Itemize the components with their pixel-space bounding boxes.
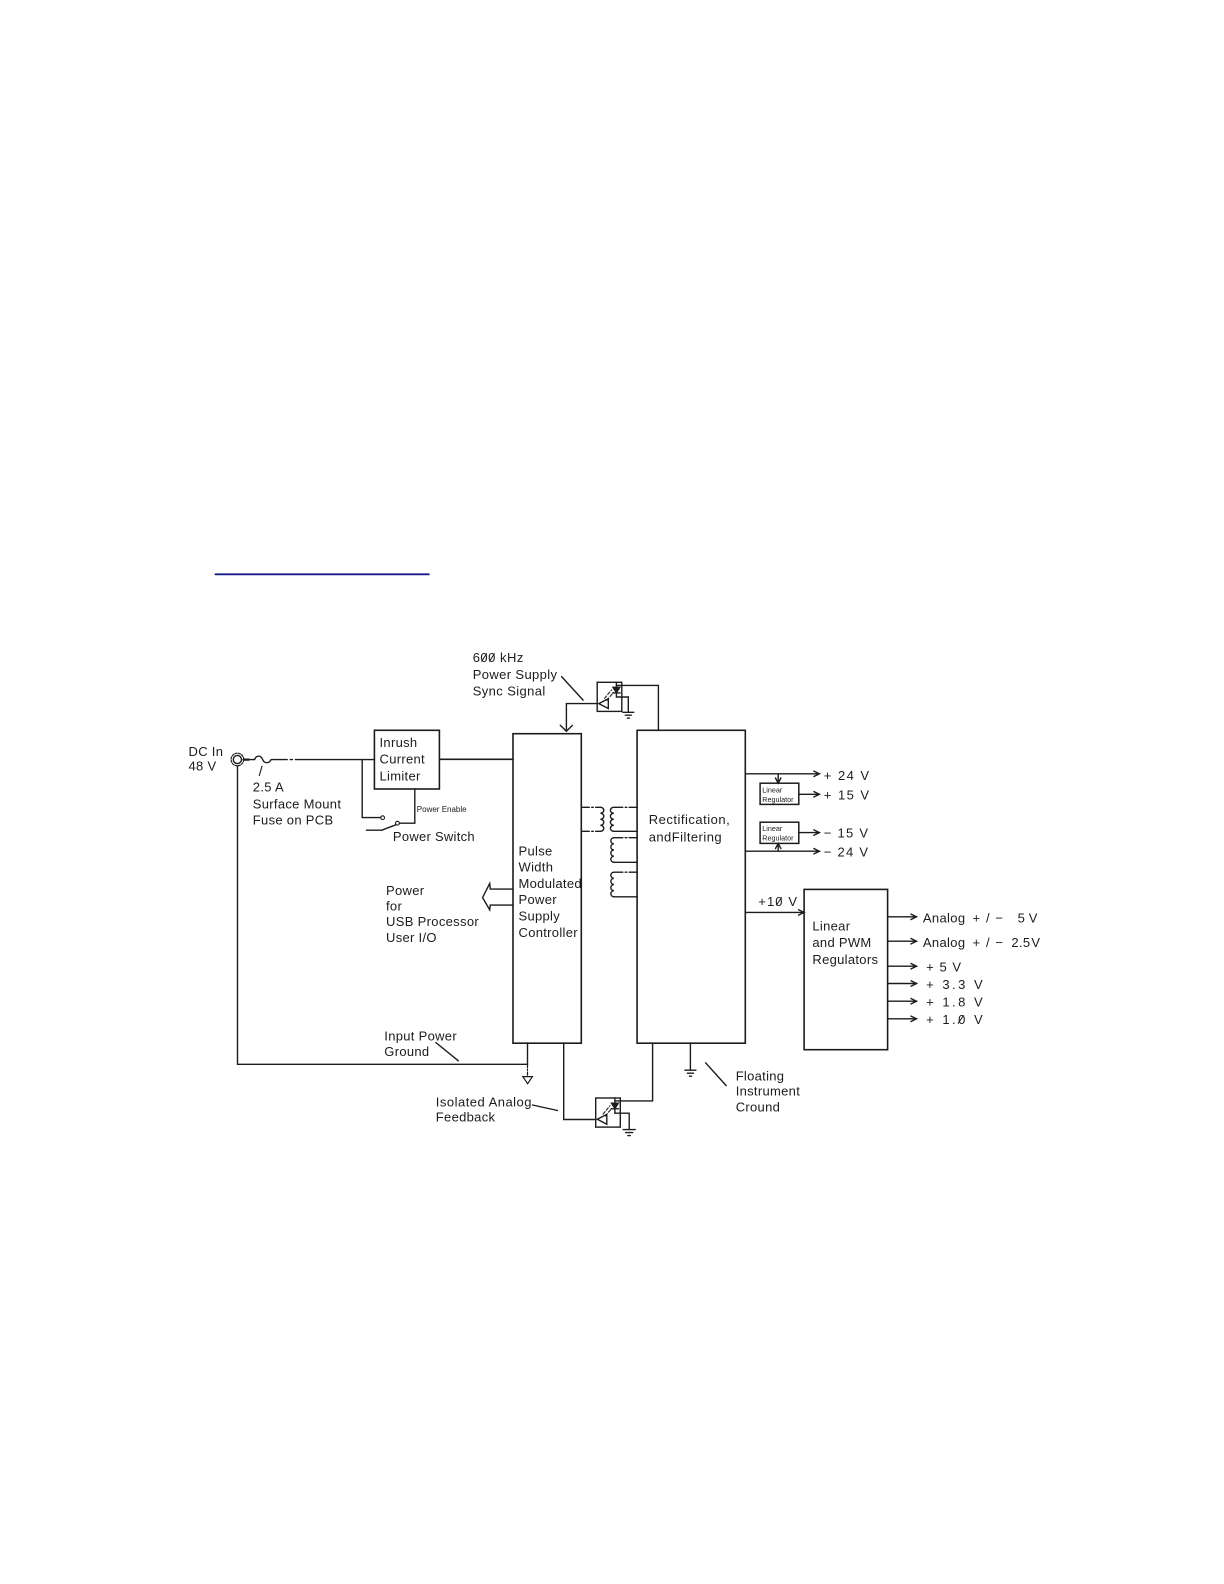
wire: input power ground return loop bbox=[238, 766, 528, 1064]
label: 2.5 A Surface Mount Fuse on PCB bbox=[253, 779, 342, 827]
svg-text:Input Power: Input Power bbox=[384, 1028, 457, 1043]
arrowhead: into regulator 1 bbox=[776, 778, 781, 783]
svg-text:Power Enable: Power Enable bbox=[417, 805, 467, 814]
arrowhead: +10 V bbox=[799, 910, 805, 915]
svg-text:+ 5 V: + 5 V bbox=[926, 959, 961, 974]
wire: -24 V branch into linear regulator 2 bbox=[777, 843, 779, 851]
switch S1: pole contact bbox=[396, 821, 400, 825]
svg-text:+10 V: +10 V bbox=[758, 894, 797, 909]
svg-text:Floating: Floating bbox=[736, 1069, 785, 1084]
transformer T1: secondary winding 3 bbox=[611, 872, 614, 897]
connector J1: DC In bbox=[231, 753, 244, 766]
fuse label leader bbox=[259, 766, 262, 775]
svg-text:V: V bbox=[1031, 935, 1040, 950]
svg-text:+ 15 V: + 15 V bbox=[824, 788, 870, 803]
svg-text:Linear: Linear bbox=[812, 919, 850, 934]
svg-text:Surface Mount: Surface Mount bbox=[253, 797, 342, 812]
wire: -24 V output bbox=[745, 850, 819, 852]
label: Floating Instrument Ground bbox=[736, 1069, 801, 1115]
wire: fuse to inrush limiter (phantom style) bbox=[271, 759, 374, 761]
svg-text:+/−: +/− bbox=[973, 910, 1004, 925]
wire: rectification block to opto U2 bbox=[615, 1043, 653, 1101]
svg-text:Power: Power bbox=[519, 892, 558, 907]
ground (opto U2) bbox=[623, 1130, 635, 1136]
svg-text:Current: Current bbox=[380, 752, 426, 767]
label: Power for USB Processor User I/O bbox=[386, 883, 479, 945]
wire: ground stem bbox=[527, 1064, 529, 1075]
transformer T1: primary winding bbox=[600, 807, 603, 831]
svg-text:Linear: Linear bbox=[762, 824, 783, 833]
wire: input power ground leader bbox=[436, 1043, 459, 1061]
opto-isolator U2 (feedback) bbox=[596, 1098, 621, 1127]
svg-text:Regulator: Regulator bbox=[762, 795, 794, 804]
arrowhead: -15 V bbox=[814, 830, 820, 835]
svg-text:Power Supply: Power Supply bbox=[473, 667, 558, 682]
svg-text:Limiter: Limiter bbox=[380, 769, 421, 784]
fuse F1 bbox=[255, 756, 271, 762]
node: switch branch junction bbox=[361, 760, 363, 818]
switch S1: pole lead bbox=[367, 829, 382, 831]
svg-text:USB Processor: USB Processor bbox=[386, 914, 479, 929]
label: Input Power Ground bbox=[384, 1028, 457, 1059]
wire: +1.0 V output bbox=[888, 1018, 917, 1020]
transformer T1: secondary 3 lead top bbox=[614, 871, 637, 873]
slash marks on zeros of 600 bbox=[482, 654, 495, 662]
svg-text:Sync Signal: Sync Signal bbox=[473, 683, 546, 698]
transformer T1: primary lead bottom bbox=[581, 830, 600, 832]
svg-text:Linear: Linear bbox=[762, 785, 783, 794]
svg-text:V: V bbox=[1029, 910, 1038, 925]
transformer T1: secondary 2 lead top bbox=[614, 837, 637, 839]
label: DC In 48 V bbox=[189, 744, 224, 774]
svg-text:Analog: Analog bbox=[923, 910, 966, 925]
transformer T1: secondary 2 lead bottom bbox=[614, 861, 637, 863]
svg-text:Rectification,: Rectification, bbox=[649, 812, 730, 827]
wire: +5 V output bbox=[888, 965, 917, 967]
svg-text:+ 3.3 V: + 3.3 V bbox=[926, 977, 983, 992]
svg-text:5: 5 bbox=[1018, 910, 1026, 925]
block: Inrush Current Limiter bbox=[374, 730, 439, 789]
wire: +24 V branch into linear regulator 1 bbox=[777, 774, 779, 783]
svg-text:andFiltering: andFiltering bbox=[649, 829, 722, 844]
wire: +10 V supply to regulators block bbox=[745, 911, 804, 913]
svg-text:+/−: +/− bbox=[973, 935, 1004, 950]
block: Rectification and Filtering bbox=[637, 730, 745, 1043]
svg-text:48 V: 48 V bbox=[189, 758, 217, 773]
svg-text:Power: Power bbox=[386, 883, 425, 898]
svg-text:and PWM: and PWM bbox=[812, 935, 871, 950]
svg-text:Feedback: Feedback bbox=[436, 1110, 496, 1125]
wire: +24 V output bbox=[745, 773, 819, 775]
wire: switch to power enable bbox=[399, 822, 414, 824]
svg-text:DC In: DC In bbox=[189, 744, 224, 759]
svg-text:Supply: Supply bbox=[519, 909, 561, 924]
svg-text:Modulated: Modulated bbox=[519, 876, 582, 891]
svg-text:Ground: Ground bbox=[384, 1044, 429, 1059]
switch S1: upper contact bbox=[381, 816, 385, 820]
arrowhead: +24 V bbox=[814, 771, 820, 776]
arrowhead: into regulator 2 bbox=[776, 843, 781, 848]
transformer T1: primary lead top bbox=[581, 806, 600, 808]
opto-isolator U1 (sync) bbox=[597, 682, 622, 711]
regulator: Linear Regulator (upper) bbox=[760, 783, 799, 804]
arrowhead: sync into PWM controller top bbox=[560, 725, 572, 731]
wire: +1.8 V output bbox=[888, 1000, 917, 1002]
wire: analog +/-2.5 V output bbox=[888, 940, 917, 942]
transformer T1: secondary 3 lead bottom bbox=[614, 896, 637, 898]
svg-text:for: for bbox=[386, 898, 402, 913]
wire: -15 V output bbox=[799, 832, 820, 834]
label: Isolated Analog Feedback bbox=[436, 1095, 532, 1125]
wire: sync signal to PWM controller bbox=[566, 704, 597, 732]
wire: floating ground leader bbox=[706, 1063, 727, 1086]
svg-text:+ 1.8 V: + 1.8 V bbox=[926, 995, 983, 1010]
wire: opto U2 cathode to ground bbox=[615, 1113, 629, 1129]
regulator: Linear Regulator (lower) bbox=[760, 822, 799, 843]
svg-text:600 kHz: 600 kHz bbox=[473, 650, 524, 665]
svg-text:2.5: 2.5 bbox=[1011, 935, 1030, 950]
wire: +15 V output bbox=[799, 793, 820, 795]
svg-text:− 24 V: − 24 V bbox=[824, 844, 869, 859]
svg-text:Instrument: Instrument bbox=[736, 1083, 801, 1098]
label: 600 kHz Power Supply Sync Signal bbox=[473, 650, 558, 698]
block: Linear and PWM Regulators bbox=[804, 889, 888, 1049]
wire: rectification ground stem bbox=[689, 1043, 691, 1069]
transformer T1: secondary winding 2 bbox=[611, 838, 614, 863]
wire: PWM controller to feedback opto bbox=[564, 1043, 596, 1120]
svg-text:Analog: Analog bbox=[923, 935, 966, 950]
svg-text:Regulator: Regulator bbox=[762, 834, 794, 843]
svg-text:Regulators: Regulators bbox=[812, 952, 878, 967]
wire: limiter output to PWM controller bbox=[439, 758, 513, 760]
transformer T1: secondary 1 lead bottom bbox=[614, 830, 637, 832]
slash mark on zero of 1.0 bbox=[958, 1016, 963, 1024]
svg-text:Cround: Cround bbox=[736, 1099, 780, 1114]
svg-text:Fuse on PCB: Fuse on PCB bbox=[253, 813, 334, 828]
wire: sync label leader bbox=[562, 677, 584, 701]
ground: floating instrument ground bbox=[685, 1070, 696, 1076]
svg-text:2.5 A: 2.5 A bbox=[253, 779, 284, 794]
arrowhead: +15 V bbox=[814, 792, 820, 797]
slash mark on zero of +10 bbox=[776, 898, 781, 906]
svg-text:Pulse: Pulse bbox=[519, 843, 553, 858]
wire: connector to fuse bbox=[244, 758, 249, 760]
ground (opto U1) bbox=[623, 712, 634, 718]
svg-text:Inrush: Inrush bbox=[380, 735, 418, 750]
block: Pulse Width Modulated Power Supply Controller bbox=[513, 734, 581, 1043]
svg-text:− 15 V: − 15 V bbox=[824, 826, 869, 841]
wire: +3.3 V output bbox=[888, 983, 917, 985]
svg-text:Width: Width bbox=[519, 860, 554, 875]
svg-text:Isolated Analog: Isolated Analog bbox=[436, 1095, 532, 1110]
wire: opto U1 anode to rectification block bbox=[616, 685, 658, 730]
arrowhead: -24 V bbox=[814, 849, 820, 854]
ground: input power ground (open triangle) bbox=[523, 1077, 533, 1084]
switch S1: blade bbox=[382, 825, 397, 831]
svg-text:+ 1.0 V: + 1.0 V bbox=[926, 1012, 983, 1027]
wire: opto U1 cathode to floating ground bbox=[616, 697, 628, 711]
svg-text:Power Switch: Power Switch bbox=[393, 829, 475, 844]
block arrow: power for USB out of PWM controller bbox=[483, 883, 513, 910]
wire: power enable into inrush limiter bbox=[414, 789, 416, 823]
svg-text:Controller: Controller bbox=[519, 925, 579, 940]
wire: branch to switch contact bbox=[362, 817, 380, 819]
transformer T1: secondary winding 1 bbox=[610, 807, 613, 831]
svg-text:User I/O: User I/O bbox=[386, 930, 437, 945]
svg-text:+ 24 V: + 24 V bbox=[824, 768, 870, 783]
heading underline bbox=[216, 573, 429, 575]
wire: feedback label leader bbox=[533, 1105, 558, 1111]
transformer T1: secondary 1 lead top bbox=[614, 806, 637, 808]
wire: analog +/-5 V output bbox=[888, 916, 917, 918]
